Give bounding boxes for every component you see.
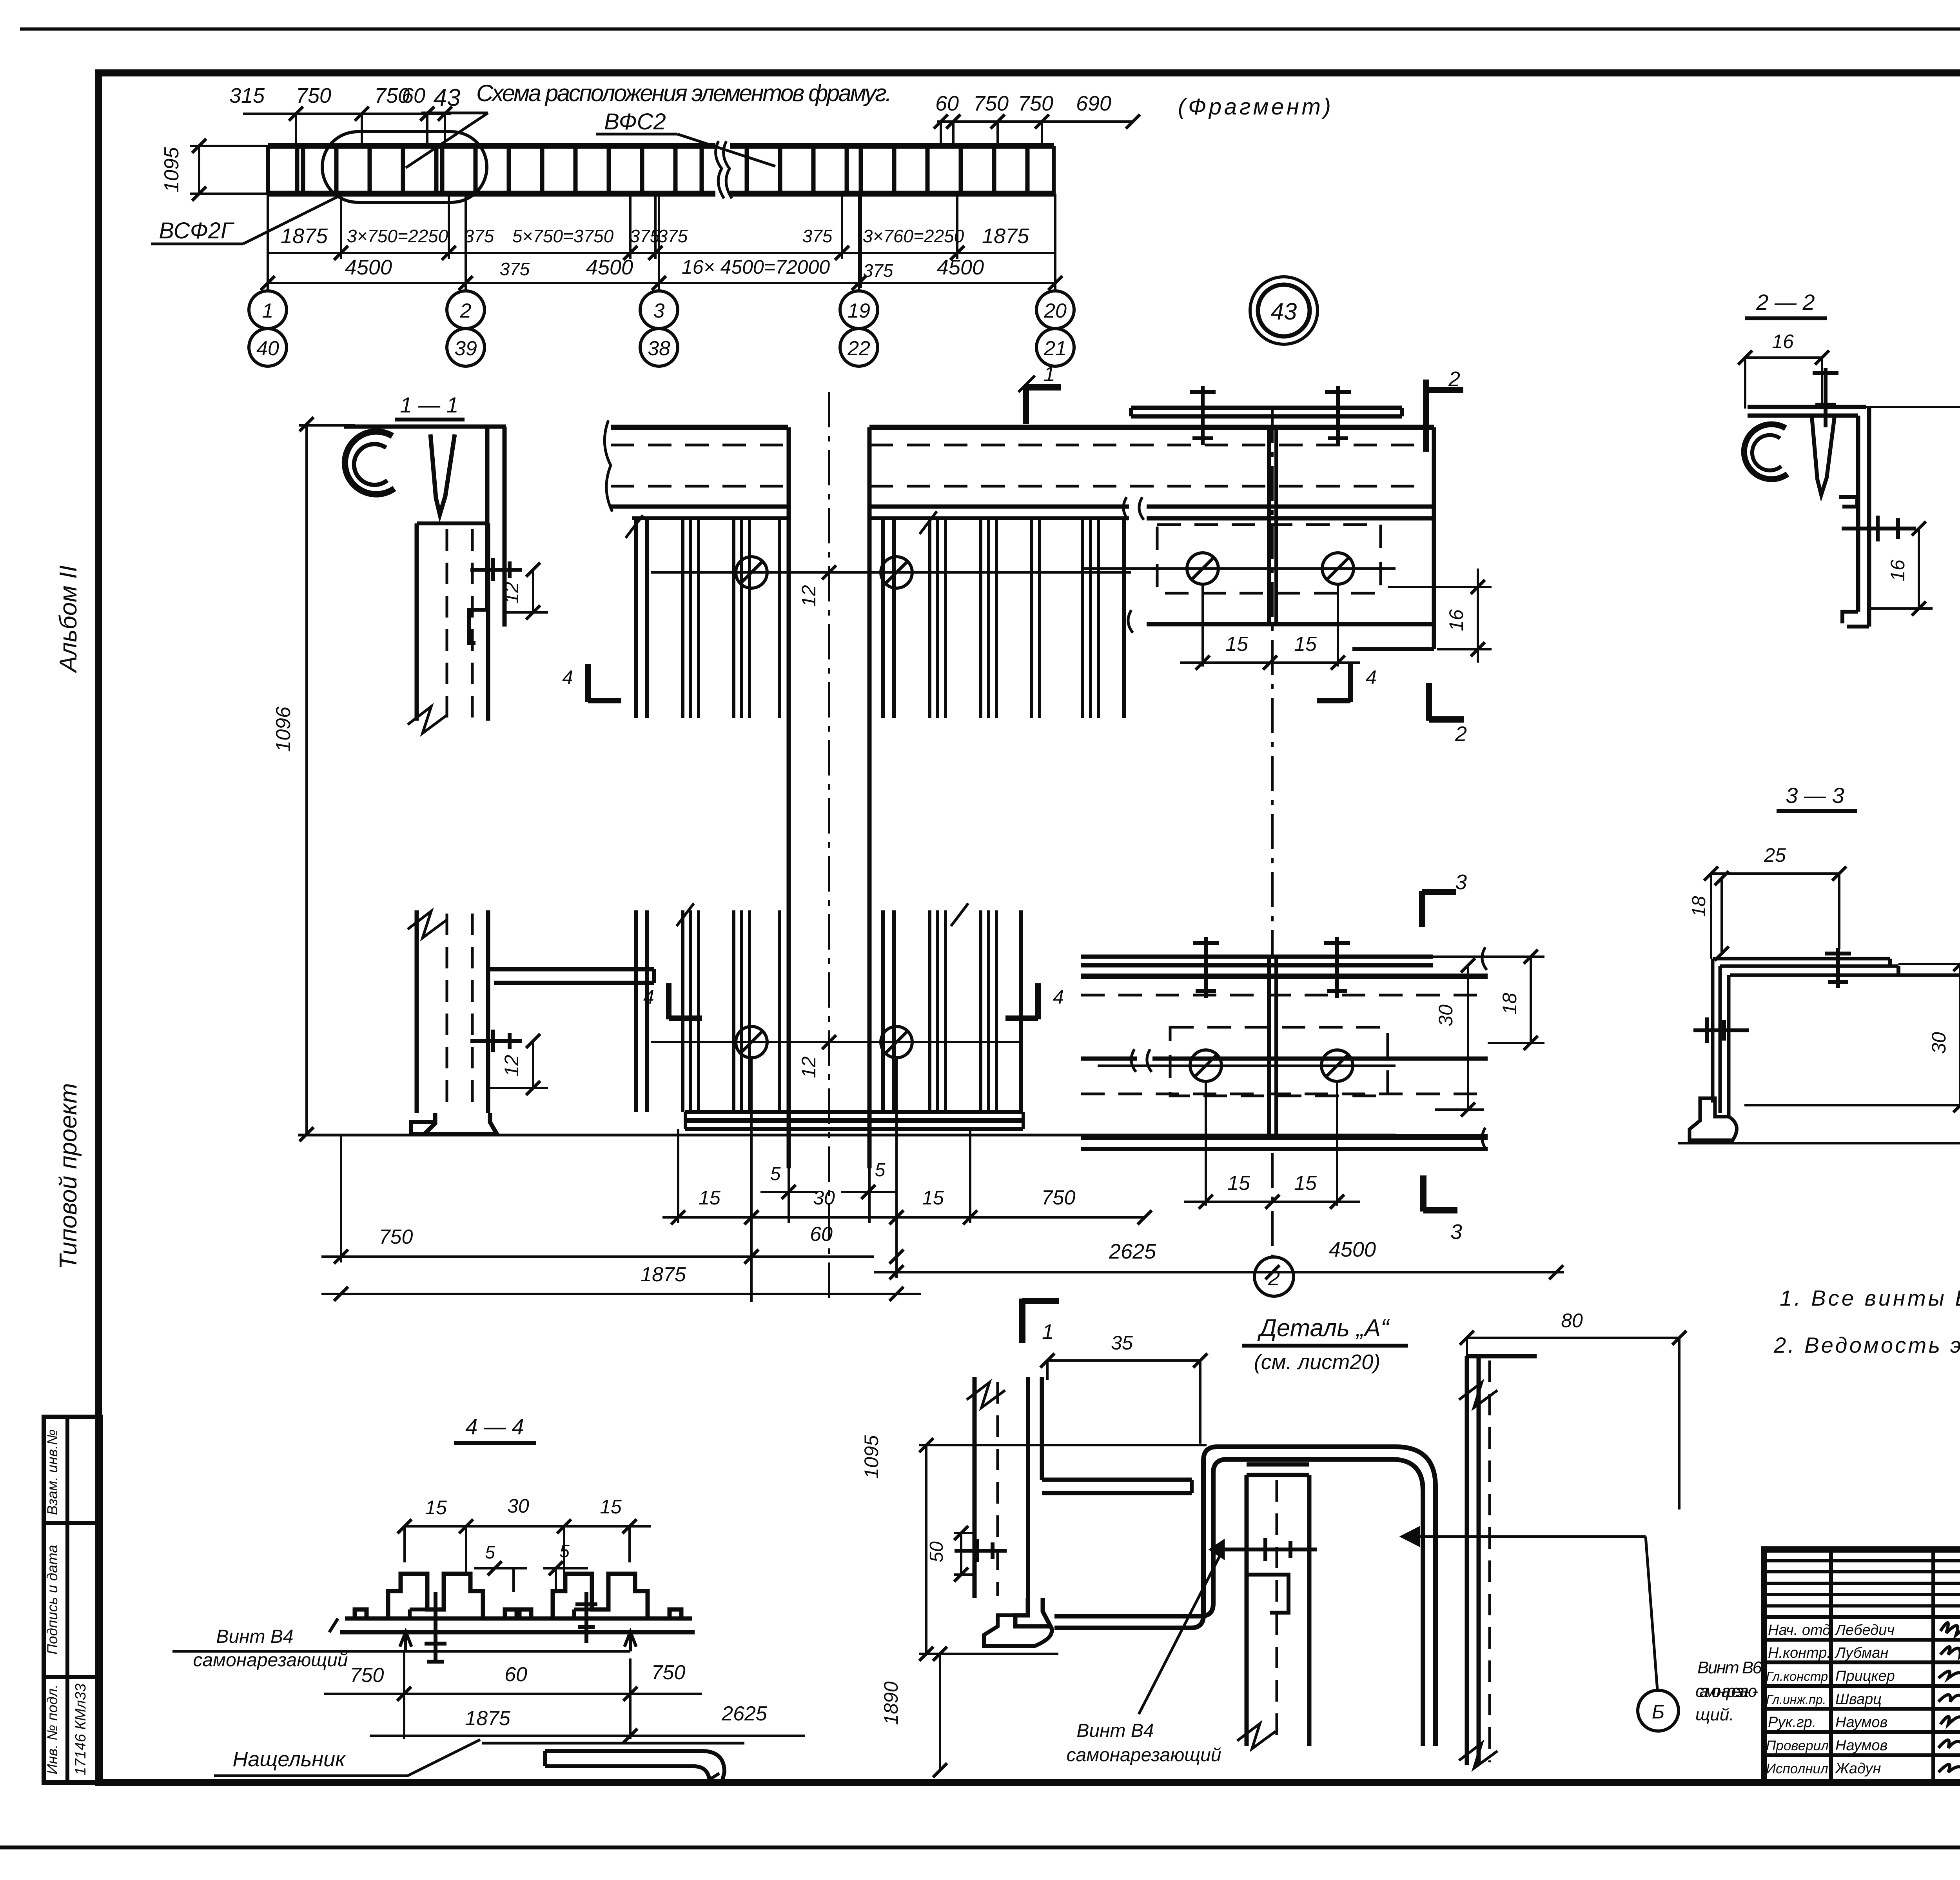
svg-text:1: 1 [1042,1320,1054,1344]
svg-text:Наумов: Наумов [1835,1714,1887,1731]
svg-text:750: 750 [379,1226,413,1248]
svg-text:Б: Б [1652,1701,1665,1723]
sheet outer top line [22,27,1960,31]
svg-text:22: 22 [847,337,870,360]
right hat profile [553,1574,648,1618]
upper rail right segment [869,425,1434,430]
leader ВСФ2Г [151,243,243,245]
svg-text:16: 16 [1887,559,1909,581]
bottom strips under columns [685,1110,1023,1114]
svg-text:1875: 1875 [982,224,1029,248]
svg-text:60: 60 [810,1223,833,1246]
connector big profile outer [1054,1447,1436,1746]
hatched column group B upper [869,516,1129,520]
svg-text:375: 375 [863,260,893,281]
section cut 1 (detail) [1019,1299,1025,1343]
svg-text:самонарезающий: самонарезающий [193,1650,348,1671]
svg-text:80: 80 [1561,1310,1583,1331]
svg-text:315: 315 [229,84,265,107]
svg-text:(см. лист20): (см. лист20) [1254,1350,1381,1374]
svg-text:35: 35 [1111,1332,1133,1354]
svg-text:750: 750 [1042,1186,1076,1209]
head profile top line [344,425,506,429]
dim 1890 [939,1654,941,1770]
svg-text:30: 30 [1435,1004,1457,1026]
svg-text:15: 15 [1225,633,1249,656]
svg-text:Гл.инж.пр.: Гл.инж.пр. [1766,1693,1826,1707]
cap plate on rail right [1131,406,1402,410]
row: 5 5 [760,1191,817,1193]
svg-text:2625: 2625 [1109,1240,1156,1263]
svg-text:Деталь „А“: Деталь „А“ [1257,1315,1390,1342]
dim 50 [960,1533,962,1575]
upper rail left segment [611,425,788,430]
svg-text:5: 5 [559,1541,570,1561]
svg-text:21: 21 [1044,337,1067,360]
svg-text:(Фрагмент): (Фрагмент) [1178,94,1331,120]
svg-text:39: 39 [454,337,477,360]
upper bolts at mullion [736,557,767,588]
2-2 hook [1744,424,1788,479]
lower rail joint on axis 2 [1267,957,1271,1137]
section cut 4 labels lower [669,983,1038,1019]
svg-text:самонарезающий: самонарезающий [1066,1745,1221,1766]
dashed plate with hole bolts [1170,1027,1388,1096]
dim 25 [1711,872,1839,875]
dim 35 [1047,1359,1200,1362]
svg-text:Лубман: Лубман [1834,1645,1888,1661]
dims 15 15 lower [1205,1082,1207,1206]
lower bolts at mullion [736,1026,767,1058]
section cut 3 upper [1422,891,1456,927]
svg-text:4 — 4: 4 — 4 [465,1414,524,1439]
svg-text:15: 15 [922,1187,944,1209]
svg-text:Взам. инв.№: Взам. инв.№ [44,1430,60,1515]
dim row 3 (grid) [268,282,1055,284]
row: 15 30 15 750 [662,1216,1145,1219]
svg-text:15: 15 [1227,1172,1250,1195]
3-3 left bolt [1693,1028,1749,1032]
2-2 dim 16 right [1918,529,1920,609]
lower rail body [1081,974,1488,979]
svg-text:16: 16 [1445,609,1467,631]
svg-text:4: 4 [643,986,654,1008]
svg-text:3×750=2250: 3×750=2250 [347,226,448,246]
svg-text:4500: 4500 [345,256,392,279]
svg-text:25: 25 [1764,844,1786,866]
dims 15 15 under upper bolts [1201,584,1204,667]
svg-text:15: 15 [425,1497,447,1519]
svg-text:5×750=3750: 5×750=3750 [512,226,614,246]
dim chains under center drawing [321,1059,1152,1302]
section cut 2 (top right of rail) [1426,380,1463,452]
svg-text:4500: 4500 [586,256,633,279]
3-3 profile left wall [1711,959,1715,1103]
grid bubble 2 below [1254,1257,1294,1296]
dim 18 [1720,878,1723,954]
svg-text:15: 15 [699,1187,720,1209]
right hat bolt [584,1592,588,1643]
transom band strip [151,107,1318,366]
svg-text:12: 12 [501,582,523,604]
3-3 profile top plates [1713,957,1890,961]
dim 1875 2625 [370,1735,805,1737]
svg-text:750: 750 [1018,92,1053,115]
svg-text:1890: 1890 [880,1681,902,1725]
svg-text:4: 4 [1053,986,1064,1008]
vertical dim 1096 line [305,424,308,1134]
svg-text:15: 15 [1294,1172,1317,1195]
svg-text:3: 3 [1455,870,1467,894]
leader to 43 [421,112,488,114]
row: 1875 [321,1293,921,1295]
svg-text:1: 1 [1044,362,1055,386]
svg-text:17146 КМл33: 17146 КМл33 [73,1684,89,1775]
upper bolt of section 1-1 [470,568,522,572]
section cut 3 lower [1423,1175,1457,1212]
band mullion verticals [295,148,299,192]
svg-text:60: 60 [505,1663,527,1686]
detail sash shelf [1042,1478,1192,1482]
bolts on cap plate [1201,386,1205,445]
svg-text:375: 375 [802,226,833,246]
2-2 right plate [1856,416,1860,612]
3-3 top bolt [1836,948,1840,988]
svg-text:1095: 1095 [860,1435,882,1479]
svg-text:3: 3 [653,300,665,322]
svg-text:16: 16 [1772,331,1794,352]
svg-text:Винт В4: Винт В4 [216,1626,293,1647]
svg-text:1875: 1875 [465,1707,511,1730]
detail callout oval 43 [322,132,487,202]
svg-text:2: 2 [1268,1266,1280,1290]
dim 12 lower [532,1041,534,1088]
group B lower [881,910,885,1112]
svg-text:1: 1 [262,300,274,322]
svg-text:Альбом II: Альбом II [55,565,82,674]
title block [1764,1549,1960,1782]
3-3 base line to 1096 dim [1678,1142,1960,1144]
detail sash foot [1015,1598,1051,1626]
svg-text:самонарезаю-: самонарезаю- [1695,1682,1758,1701]
svg-text:Нач. отд.: Нач. отд. [1768,1622,1835,1638]
sash foot [424,1113,497,1134]
section cut 2 lower [1429,683,1464,721]
left sash of detail [973,1377,977,1598]
svg-text:375: 375 [630,226,660,246]
lower rail bottom lines [1081,1134,1488,1140]
3-3 dim 30 [1959,964,1960,1105]
svg-text:60: 60 [935,92,959,115]
dim 12 upper [532,570,534,612]
svg-text:43: 43 [434,84,461,111]
detail sash bolt [955,1549,1007,1553]
svg-text:щий.: щий. [1695,1705,1734,1724]
detail bolt horizontal [1224,1548,1317,1551]
svg-text:5: 5 [875,1160,886,1181]
rail joint on axis 2 [1267,427,1271,624]
dim row top-right [937,120,1133,123]
group A lower [634,910,638,1112]
svg-text:4: 4 [562,667,573,688]
svg-text:12: 12 [798,1056,820,1078]
inner member of detail [1247,1462,1309,1467]
dim 80 [1467,1337,1679,1339]
svg-text:12: 12 [501,1055,523,1077]
sheet bottom outer line [0,1845,1960,1849]
sash frame lower part [415,910,419,1113]
svg-text:Наумов: Наумов [1835,1737,1887,1754]
svg-text:Подпись и дата: Подпись и дата [44,1545,60,1655]
svg-text:1096: 1096 [272,707,295,752]
dim line 2625 / 4500 [895,1082,898,1278]
svg-text:750: 750 [652,1661,686,1684]
svg-text:Проверил: Проверил [1766,1738,1829,1753]
2-2 right bolt [1842,527,1916,530]
svg-text:2: 2 [1448,367,1460,391]
svg-text:3: 3 [1450,1220,1462,1244]
vertical dim 1095 at band left [198,146,200,194]
svg-text:Нащельник: Нащельник [232,1747,346,1771]
svg-text:690: 690 [1076,92,1111,115]
section cut 1 (top, below grid 21) [1018,376,1061,424]
svg-text:50: 50 [926,1541,947,1562]
2-2 clip [1839,497,1857,507]
dim 16 right of plate [1477,569,1479,663]
sash frame upper part [415,523,419,721]
svg-text:750: 750 [350,1664,384,1687]
break marks in band [716,141,724,198]
lower rail (right of mullion) [874,408,1564,1296]
svg-text:5: 5 [770,1164,781,1184]
svg-text:Исполнил: Исполнил [1766,1761,1828,1776]
left hat profile [388,1574,483,1618]
dims 5 5 [474,1567,527,1569]
right post of detail [1465,1356,1469,1765]
svg-text:5: 5 [485,1542,495,1562]
svg-text:38: 38 [648,337,670,360]
svg-text:Рук.гр.: Рук.гр. [1768,1714,1816,1731]
svg-text:12: 12 [798,585,820,607]
svg-text:16× 4500=72000: 16× 4500=72000 [682,256,830,278]
row: 750 60 2625 [321,1255,874,1258]
svg-text:15: 15 [1294,633,1317,656]
extension to 1095 dim [1866,406,1960,408]
dim 30 right [1467,965,1469,1110]
svg-text:43: 43 [1271,298,1297,325]
svg-text:3×760=2250: 3×760=2250 [863,226,964,246]
svg-text:1095: 1095 [160,147,183,193]
2-2 tongue [1812,416,1835,495]
left hat bolt [434,1592,437,1662]
svg-text:Гл.констр: Гл.констр [1766,1669,1828,1684]
svg-text:Прицкер: Прицкер [1835,1668,1895,1684]
extensions [750,1059,753,1302]
dim row top-left [243,113,451,115]
head profile right plate [485,427,490,610]
dim row 2 below band [268,252,1055,254]
svg-text:ВСФ2Г: ВСФ2Г [159,218,235,243]
svg-text:19: 19 [848,300,870,322]
bottom-left inventory table [44,1417,101,1782]
svg-text:Инв. № подл.: Инв. № подл. [44,1684,60,1775]
lower bolt of section 1-1 [470,1039,522,1043]
head profile hook [345,432,394,494]
svg-text:4500: 4500 [1329,1238,1376,1261]
svg-text:1875: 1875 [281,224,328,248]
dim 1095 left of detail [925,1445,927,1654]
svg-text:2: 2 [1455,722,1467,746]
svg-text:375: 375 [658,226,688,246]
нащельник leader and profile [214,1775,408,1777]
svg-text:2: 2 [460,300,472,322]
mullion verticals [787,427,791,1168]
svg-text:750: 750 [296,84,331,107]
mullion centerline [828,392,830,1300]
svg-text:Жадун: Жадун [1835,1760,1881,1777]
svg-text:40: 40 [256,337,279,360]
svg-text:2 — 2: 2 — 2 [1756,290,1815,314]
head profile tongue [430,434,455,514]
svg-text:Лебедич: Лебедич [1834,1622,1895,1638]
svg-text:18: 18 [1499,993,1521,1015]
svg-text:ВФС2: ВФС2 [604,109,666,134]
3-3 foot [1690,1097,1737,1140]
screw B4 leader [1139,1553,1221,1714]
svg-text:4: 4 [1366,667,1377,688]
bolts on lower cap [1204,937,1208,998]
svg-text:Винт В6: Винт В6 [1697,1658,1762,1677]
svg-text:750: 750 [973,92,1009,115]
screw B6 arrow [1419,1535,1646,1538]
svg-text:Схема расположения элементов ф: Схема расположения элементов фрамуг. [476,80,892,106]
svg-text:1. Все винты В4, кроме оговор: 1. Все винты В4, кроме оговоренных. [1780,1286,1960,1310]
svg-text:Н.контр.: Н.контр. [1768,1645,1831,1661]
svg-text:4500: 4500 [937,256,984,279]
svg-text:30: 30 [507,1495,529,1517]
svg-text:20: 20 [1044,300,1067,322]
leader ВФС2 [596,133,677,136]
sill flange [488,967,654,972]
svg-text:15: 15 [600,1496,622,1518]
svg-text:60: 60 [402,84,425,107]
signatures [1938,1621,1960,1776]
grid bubbles [249,291,287,329]
svg-text:Типовой проект: Типовой проект [55,1083,82,1269]
ground line [298,1134,1396,1137]
2-2 top plate [1748,405,1866,409]
node 43 double circle [1250,277,1318,344]
right plate with holes below rail [1147,516,1434,521]
dim 15 30 15 [405,1525,651,1528]
svg-text:Винт В4: Винт В4 [1076,1720,1154,1741]
svg-text:375: 375 [500,259,530,279]
dim 16 top [1745,356,1822,359]
hatched column group A upper [632,516,788,520]
svg-text:18: 18 [1689,896,1710,917]
section cut 4 labels upper [588,664,1350,702]
lower rail cap plate [1081,955,1433,959]
dim 750 60 750 [324,1693,702,1695]
svg-text:1 — 1: 1 — 1 [400,392,458,417]
svg-text:2. Ведомость элементов приведе: 2. Ведомость элементов приведена на лист… [1773,1333,1960,1357]
svg-text:30: 30 [813,1187,835,1209]
screw leaders with arrows [172,1650,630,1653]
svg-text:2625: 2625 [721,1702,768,1725]
dim 18 right [1530,957,1532,1043]
svg-text:1875: 1875 [641,1263,686,1286]
axis 2 centerline [1271,1153,1274,1257]
svg-text:Шварц: Шварц [1835,1691,1882,1707]
svg-text:30: 30 [1928,1032,1950,1054]
svg-text:3 — 3: 3 — 3 [1786,783,1844,808]
2-2 top bolt [1824,368,1828,427]
svg-text:375: 375 [464,226,494,246]
